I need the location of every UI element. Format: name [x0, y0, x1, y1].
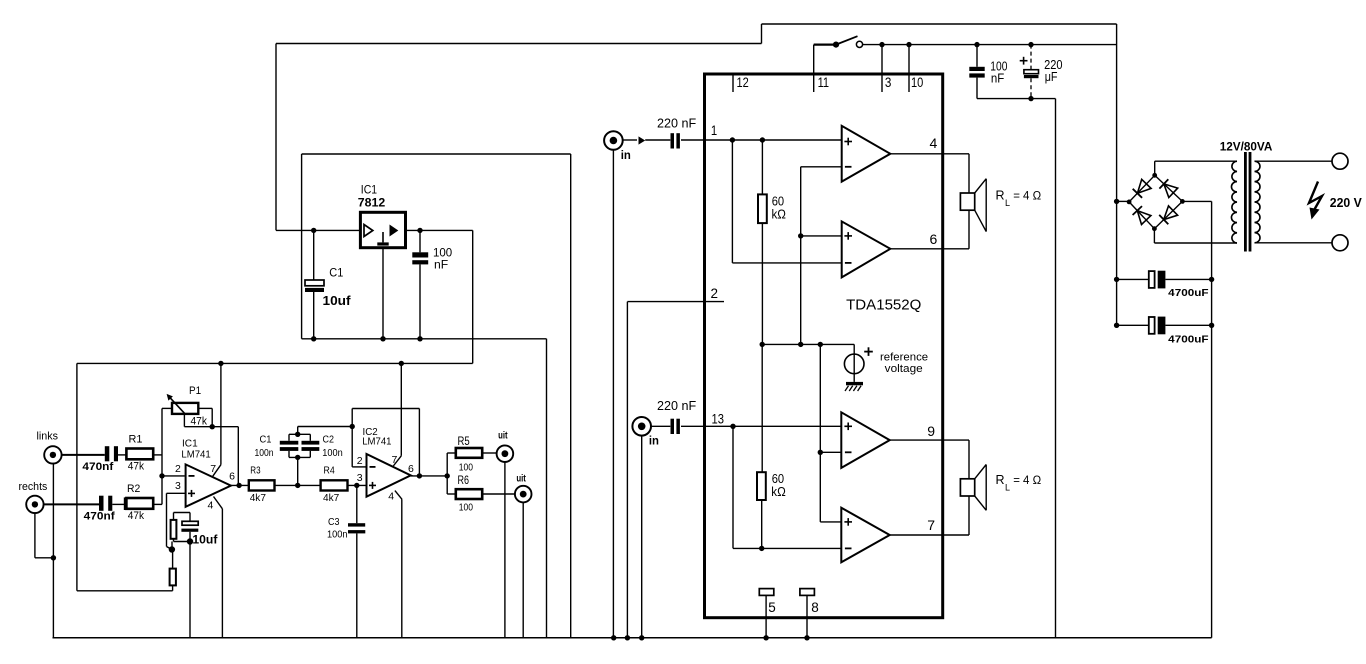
svg-text:L: L	[1005, 198, 1010, 208]
svg-text:= 4 Ω: = 4 Ω	[1013, 191, 1041, 203]
svg-text:R4: R4	[324, 464, 335, 476]
svg-text:60: 60	[772, 195, 784, 209]
svg-text:470nf: 470nf	[84, 511, 115, 523]
svg-text:9: 9	[927, 423, 935, 439]
svg-text:12: 12	[737, 75, 749, 90]
svg-text:uit: uit	[498, 430, 508, 442]
svg-text:nF: nF	[434, 258, 448, 272]
svg-text:8: 8	[811, 600, 819, 615]
svg-text:links: links	[37, 431, 59, 443]
svg-text:220 nF: 220 nF	[657, 115, 696, 130]
svg-text:4: 4	[208, 499, 214, 511]
svg-text:60: 60	[772, 472, 784, 486]
svg-text:5: 5	[768, 600, 776, 615]
svg-text:rechts: rechts	[19, 481, 48, 493]
svg-text:LM741: LM741	[362, 435, 391, 447]
svg-text:in: in	[621, 150, 631, 162]
svg-text:3: 3	[175, 480, 181, 492]
svg-text:R: R	[996, 473, 1005, 487]
svg-text:7812: 7812	[358, 196, 386, 210]
svg-text:= 4 Ω: = 4 Ω	[1013, 475, 1041, 487]
svg-text:TDA1552Q: TDA1552Q	[846, 296, 921, 313]
svg-text:R1: R1	[129, 434, 143, 446]
svg-text:13: 13	[712, 411, 725, 426]
svg-text:100: 100	[459, 461, 473, 473]
svg-text:P1: P1	[189, 385, 201, 397]
svg-text:4: 4	[930, 135, 938, 151]
svg-text:C3: C3	[328, 516, 340, 528]
svg-text:47k: 47k	[128, 461, 145, 473]
svg-text:100: 100	[459, 501, 473, 513]
svg-text:uit: uit	[516, 472, 526, 484]
svg-text:LM741: LM741	[181, 449, 210, 461]
svg-text:R3: R3	[250, 464, 260, 476]
svg-text:4700uF: 4700uF	[1168, 333, 1209, 345]
svg-text:L: L	[1005, 482, 1010, 492]
svg-text:6: 6	[229, 470, 235, 482]
svg-text:kΩ: kΩ	[771, 485, 786, 499]
svg-text:6: 6	[408, 463, 414, 475]
svg-text:11: 11	[818, 75, 830, 90]
svg-text:2: 2	[175, 463, 181, 475]
svg-text:IC1: IC1	[361, 182, 378, 196]
svg-text:3: 3	[357, 472, 363, 484]
svg-text:10uf: 10uf	[323, 294, 352, 308]
svg-text:μF: μF	[1045, 70, 1058, 84]
svg-text:220 V: 220 V	[1330, 196, 1363, 210]
svg-text:4k7: 4k7	[323, 492, 339, 504]
svg-text:C1: C1	[260, 434, 272, 446]
svg-text:kΩ: kΩ	[772, 208, 787, 222]
svg-text:10uf: 10uf	[192, 533, 218, 547]
svg-text:12V/80VA: 12V/80VA	[1220, 140, 1273, 154]
svg-text:100n: 100n	[327, 529, 348, 541]
svg-text:2: 2	[357, 455, 363, 467]
svg-text:4700uF: 4700uF	[1168, 287, 1209, 299]
svg-text:IC1: IC1	[182, 437, 198, 449]
svg-text:R6: R6	[458, 475, 470, 487]
svg-text:10: 10	[911, 75, 923, 90]
svg-text:2: 2	[711, 286, 719, 301]
svg-text:6: 6	[930, 231, 938, 247]
svg-text:in: in	[649, 435, 659, 447]
svg-text:R5: R5	[458, 436, 470, 448]
svg-text:47k: 47k	[128, 510, 145, 522]
svg-text:nF: nF	[991, 71, 1005, 85]
svg-text:voltage: voltage	[885, 363, 923, 375]
svg-text:4: 4	[388, 491, 394, 503]
svg-text:4k7: 4k7	[250, 492, 266, 504]
svg-text:C2: C2	[323, 434, 335, 446]
svg-text:220 nF: 220 nF	[657, 398, 696, 413]
svg-text:100n: 100n	[255, 447, 274, 459]
svg-text:1: 1	[711, 123, 717, 138]
svg-text:7: 7	[927, 517, 935, 533]
svg-text:reference: reference	[880, 352, 928, 364]
svg-text:470nf: 470nf	[82, 461, 113, 473]
svg-text:R2: R2	[127, 483, 140, 495]
svg-text:R: R	[996, 189, 1005, 203]
svg-text:100n: 100n	[322, 447, 343, 459]
svg-text:47k: 47k	[191, 416, 208, 428]
svg-text:C1: C1	[329, 266, 343, 280]
svg-text:3: 3	[885, 75, 892, 90]
